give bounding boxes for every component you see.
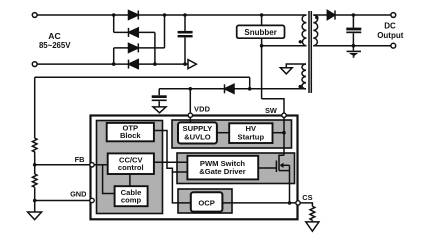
primary common arrow right <box>188 60 196 69</box>
ground G2 <box>153 107 166 113</box>
wire bottom AC line <box>37 63 188 65</box>
wire cccv to cable comp <box>129 174 131 186</box>
pin VDD <box>188 113 192 117</box>
diode D6 VDD <box>225 84 235 93</box>
wire D2 row <box>114 31 155 33</box>
node hv sw <box>282 131 286 135</box>
svg-text:CS: CS <box>302 193 312 202</box>
node mosfet source cs <box>288 201 292 205</box>
block OTP <box>107 123 154 141</box>
svg-text:DC: DC <box>384 22 396 31</box>
node junction VDD cap <box>189 87 193 91</box>
node FB <box>33 163 37 167</box>
pin SW <box>282 113 286 117</box>
wire bridge DC- vertical <box>154 32 156 64</box>
svg-text:Block: Block <box>120 131 141 140</box>
DC output terminal plus <box>391 13 396 18</box>
node primary bottom <box>260 44 264 48</box>
svg-text:&Gate Driver: &Gate Driver <box>199 167 245 176</box>
wire VDD pin to supply <box>189 115 191 122</box>
node junction bottom 3 <box>183 62 187 66</box>
ground G5 secondary <box>347 46 361 58</box>
svg-text:SW: SW <box>265 106 277 115</box>
wire bridge left vertical upper <box>113 15 115 32</box>
wire cccv to pwm <box>154 161 188 163</box>
wire otp to pwm <box>154 131 188 173</box>
wire FB sense horizontal <box>35 76 250 78</box>
resistor R1 <box>32 138 37 152</box>
wire primary bottom <box>262 45 307 47</box>
IC outline U1 <box>91 116 298 220</box>
node output bottom <box>352 44 356 48</box>
polarity dot aux <box>299 85 302 88</box>
block PWM Switch Gate Driver <box>187 156 258 180</box>
svg-text:OCP: OCP <box>198 199 214 208</box>
capacitor C1 bulk <box>178 15 193 64</box>
block Cable comp <box>115 186 148 206</box>
wire CS external <box>300 203 312 206</box>
node junction bottom 1 <box>112 62 116 66</box>
aux winding <box>302 64 306 89</box>
panel bottom ocp <box>178 189 232 213</box>
transistor Q1 mosfet <box>258 155 289 203</box>
node junction top rail 3 <box>183 13 187 17</box>
polarity dot primary <box>299 40 302 43</box>
wire R2 to ground <box>34 187 36 212</box>
svg-text:comp: comp <box>121 196 142 205</box>
wire otp branch to ocp <box>172 172 190 203</box>
diode D1 <box>129 11 139 20</box>
ground G4 aux arrow <box>280 68 292 74</box>
block SUPPLY UVLO <box>178 122 217 143</box>
node junction top rail 1 <box>112 13 116 17</box>
wire bridge left vertical lower <box>113 48 115 64</box>
wire divider vertical top <box>34 77 36 138</box>
block HV Startup <box>229 123 272 143</box>
node junction sense-aux <box>248 87 252 91</box>
transformer secondary winding <box>313 15 317 46</box>
AC terminal top <box>32 13 37 18</box>
wire fb branch to cable comp <box>103 165 115 194</box>
pin CS <box>296 201 300 205</box>
node junction top rail 4 <box>260 13 264 17</box>
wire FB to pin <box>35 164 92 166</box>
AC terminal bottom <box>32 62 37 67</box>
panel left analog <box>97 121 163 214</box>
node GND <box>33 199 37 203</box>
ground G3 <box>306 222 319 231</box>
block OCP <box>191 192 223 211</box>
wire FB sense vertical drop <box>249 77 251 89</box>
node junction bottom 2 <box>153 62 157 66</box>
polarity dot secondary <box>315 16 318 19</box>
wire VDD line <box>159 88 306 90</box>
diode D4 <box>129 60 139 69</box>
resistor R2 <box>32 174 37 187</box>
wire supply to hv <box>217 132 229 134</box>
transformer core <box>309 11 311 93</box>
svg-text:&UVLO: &UVLO <box>184 133 211 142</box>
wire SW internal vertical <box>283 115 285 155</box>
pin GND <box>90 198 94 202</box>
node output top <box>352 13 356 17</box>
pin FB <box>90 163 94 167</box>
snubber wire bottom <box>261 38 263 99</box>
wire secondary bottom <box>313 45 391 47</box>
diode D3 <box>129 43 139 52</box>
transformer primary winding <box>302 15 306 46</box>
capacitor C2 VDD <box>152 89 167 107</box>
wire aux top <box>286 64 306 68</box>
wire FB to cccv <box>92 164 108 166</box>
wire VDD pin drop <box>189 89 191 116</box>
wire R3 to ground <box>311 220 313 222</box>
svg-text:85~265V: 85~265V <box>39 41 71 50</box>
panel top supply <box>172 120 292 148</box>
svg-text:Output: Output <box>377 31 404 40</box>
wire SW jog <box>262 99 284 116</box>
DC output terminal minus <box>391 43 396 48</box>
svg-text:FB: FB <box>75 155 85 164</box>
wire secondary top <box>313 14 391 16</box>
node junction top rail 2 <box>163 13 167 17</box>
wire bridge DC+ vertical <box>164 15 166 48</box>
wire GND to pin <box>35 200 92 202</box>
svg-text:VDD: VDD <box>194 105 211 114</box>
block CC/CV control <box>108 153 154 174</box>
diode D2 <box>129 28 139 37</box>
svg-text:control: control <box>118 163 144 172</box>
wire R1 to FB node <box>34 152 36 174</box>
wire ocp to cs <box>222 202 298 204</box>
wire hv to sw line <box>273 132 285 134</box>
ground G1 <box>28 212 42 220</box>
svg-text:GND: GND <box>70 190 87 199</box>
capacitor C3 output <box>346 15 361 46</box>
panel middle pwm <box>177 153 295 184</box>
svg-text:AC: AC <box>48 31 60 41</box>
svg-text:Startup: Startup <box>238 132 265 141</box>
wire top AC rail <box>37 14 306 16</box>
svg-text:Snubber: Snubber <box>244 28 276 37</box>
diode D5 output <box>327 10 335 19</box>
resistor R3 <box>310 206 315 220</box>
snubber box <box>237 25 285 38</box>
wire D3 row <box>114 47 165 49</box>
snubber wire top <box>261 15 263 25</box>
